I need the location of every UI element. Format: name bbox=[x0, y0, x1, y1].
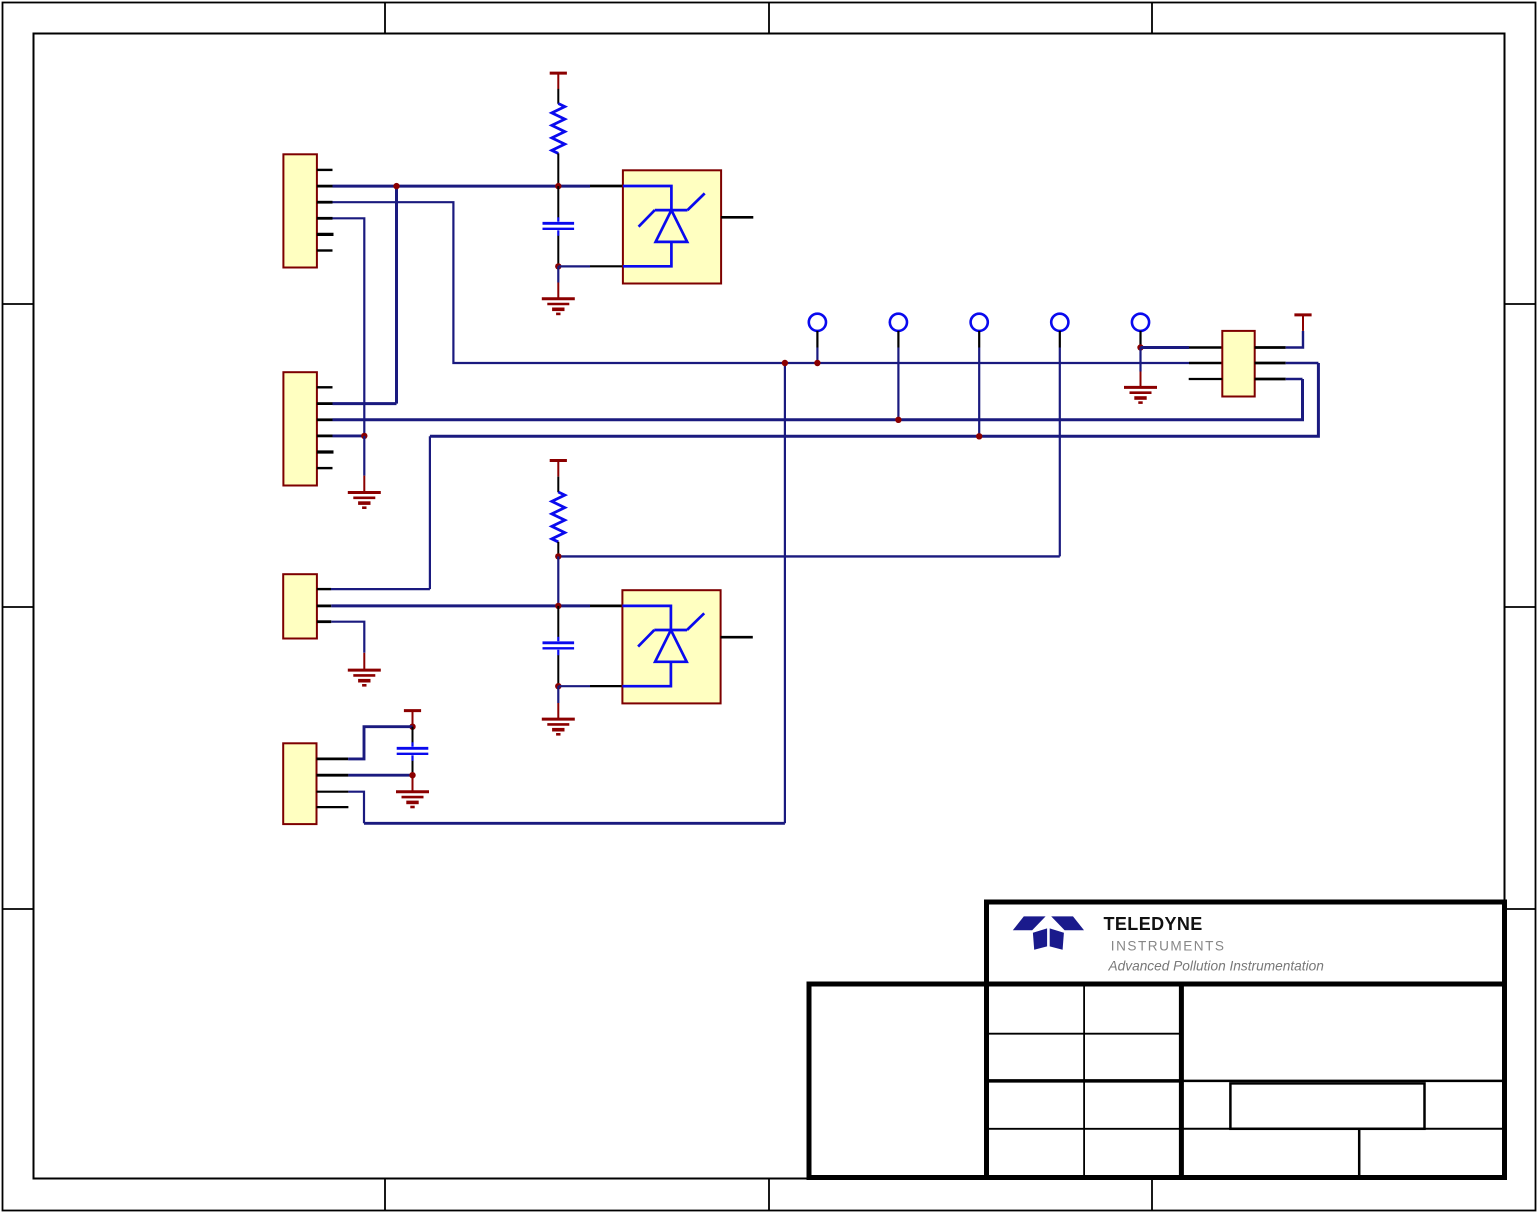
wire J2.2 bbox=[333, 402, 397, 405]
wire U4 right pin2 bbox=[1255, 362, 1319, 365]
wire node A to U1 pin1 bbox=[590, 185, 623, 188]
wire J2.3 long net to U4 pin6 bbox=[333, 379, 1303, 420]
wire U4 right pin3 bbox=[1255, 378, 1303, 381]
wire to J3.1 bbox=[331, 436, 430, 589]
ground G5 bbox=[396, 775, 429, 807]
wire J3.2 to node F bbox=[331, 604, 590, 607]
node H junction bbox=[409, 724, 415, 730]
connector J4 bbox=[283, 743, 348, 824]
power flag VCC3 bbox=[404, 711, 421, 727]
resistor R1 bbox=[552, 104, 565, 187]
node TP2 junction bbox=[895, 417, 901, 423]
power flag VCC2 bbox=[550, 461, 567, 493]
node TP3 junction bbox=[976, 433, 982, 439]
wire node A to J2.2 (vertical) bbox=[395, 186, 398, 404]
connector J1 bbox=[283, 154, 333, 267]
node E junction bbox=[555, 553, 561, 559]
capacitor C3 bbox=[397, 727, 429, 776]
TVS diode U1 bbox=[623, 170, 753, 283]
svg-text:INSTRUMENTS: INSTRUMENTS bbox=[1111, 939, 1226, 954]
svg-text:Advanced Pollution Instrumenta: Advanced Pollution Instrumentation bbox=[1108, 958, 1324, 973]
node A junction bbox=[555, 183, 561, 189]
wire node F to U2 pin1 bbox=[590, 605, 623, 608]
wire TP5 to U4 pin1 bbox=[1141, 346, 1223, 349]
node TP5 junction bbox=[1137, 344, 1143, 350]
wire node B to U1 pin2 bbox=[558, 265, 623, 267]
node I junction bbox=[409, 772, 415, 778]
ground G2 bbox=[348, 436, 381, 508]
test point TP4 bbox=[1051, 314, 1068, 348]
test point TP2 bbox=[890, 314, 907, 348]
node C junction bbox=[361, 433, 367, 439]
wire R2 node to TP4 bbox=[558, 555, 1060, 557]
test point TP5 bbox=[1132, 314, 1149, 348]
wire J1.4 to J2.4 (vertical) bbox=[333, 218, 365, 436]
node TP1 junction bbox=[814, 360, 820, 366]
wire J1.3 to U4 pin (net TXD) bbox=[333, 202, 1223, 363]
wire J4.3 bbox=[348, 792, 364, 824]
capacitor C1 bbox=[543, 186, 575, 266]
wire J2.4 bbox=[333, 434, 365, 437]
capacitor C2 bbox=[543, 606, 575, 686]
Teledyne logo bbox=[1013, 916, 1084, 949]
wire J1.2 to node A bbox=[333, 185, 591, 188]
TVS diode U2 bbox=[622, 590, 752, 703]
wire TP1 stem bbox=[816, 348, 818, 364]
ground G1 bbox=[542, 266, 575, 314]
test point TP1 bbox=[809, 314, 826, 348]
power flag VCC4 bbox=[1294, 315, 1311, 331]
resistor R2 bbox=[552, 492, 565, 556]
ground G6 bbox=[1124, 348, 1157, 403]
pin stub U4 left pin3 bbox=[1189, 378, 1223, 380]
wire TP4 stem bbox=[1059, 348, 1061, 557]
wire U4 right pin1 to power bbox=[1255, 331, 1303, 348]
test point TP3 bbox=[971, 314, 988, 348]
wire J4.1 to node H bbox=[348, 727, 412, 759]
wire bottom run y=823 bbox=[364, 822, 785, 825]
wire J3.3 to ground bbox=[331, 622, 364, 653]
vertical long net to J4.3 bbox=[784, 363, 786, 823]
power flag VCC1 bbox=[550, 73, 567, 104]
node G junction bbox=[555, 683, 561, 689]
connector J3 bbox=[283, 574, 331, 638]
wire J4.2 to node I bbox=[348, 774, 412, 777]
node B junction bbox=[555, 263, 561, 269]
connector U4 (filter block) bbox=[1222, 331, 1254, 397]
ground G4 bbox=[542, 686, 575, 734]
wire TP2 stem bbox=[897, 348, 899, 420]
wire TP3 stem bbox=[978, 348, 980, 437]
ground G3 bbox=[348, 653, 381, 686]
wire node G to U2 pin2 bbox=[558, 685, 623, 687]
wire node E to node F bbox=[557, 556, 559, 606]
wire net RXD row bbox=[430, 363, 1319, 436]
svg-text:TELEDYNE: TELEDYNE bbox=[1104, 914, 1203, 934]
node D junction bbox=[782, 360, 788, 366]
connector J2 bbox=[283, 372, 333, 485]
node A2 junction bbox=[393, 183, 399, 189]
node F junction bbox=[555, 603, 561, 609]
